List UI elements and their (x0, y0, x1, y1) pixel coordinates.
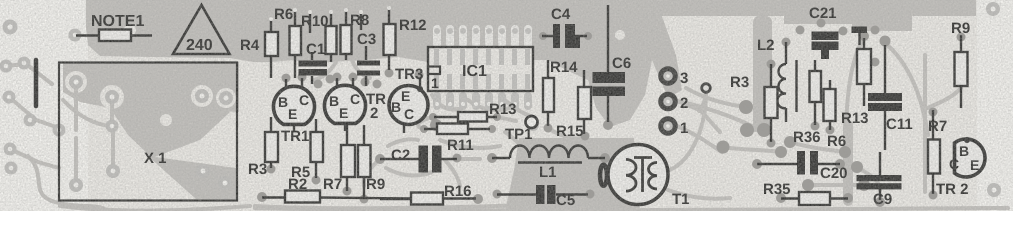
pad T1 area big vias (739, 100, 753, 114)
node 1 ring (661, 119, 689, 137)
wire trace misc middle (418, 117, 433, 129)
copper pour: vertical bundle left of L2 (753, 16, 772, 131)
wire trace central clutter (677, 101, 752, 126)
copper pour: bottom-middle block under L1/C5 (505, 138, 640, 211)
wire trace inside X1 (74, 86, 78, 130)
op-amp IC1 (428, 47, 533, 91)
resistor R3 (left) (248, 117, 278, 178)
resistor R10 (301, 10, 337, 62)
resistor R36 (793, 60, 821, 146)
copper pour: X1 lower-right diagonal (148, 156, 236, 199)
copper pour: C21 band thickening (784, 16, 870, 24)
wire trace left cluster (6, 64, 52, 84)
transistor TR1 (273, 78, 314, 145)
resistor R13 (right) (841, 38, 871, 127)
resistor NOTE1 (76, 13, 152, 41)
T mark near C21 (852, 27, 868, 65)
node 3 ring (661, 69, 689, 87)
resistor R9 (left) (358, 125, 385, 198)
resistor R3 (right) (730, 64, 778, 142)
copper pour: top band (63, 0, 976, 211)
triangle 240 marker (173, 5, 230, 54)
transistor TR2 (middle) (325, 78, 387, 131)
transformer T1 (600, 145, 690, 209)
transistor TR2 (right) (936, 137, 985, 198)
capacitor C9 (857, 152, 902, 208)
capacitor C2 (380, 146, 457, 173)
test point TP1 (505, 116, 538, 143)
resistor R7 (right) (928, 110, 947, 194)
IC1 inner stripes (434, 49, 530, 89)
resistor R6 (right) (824, 80, 847, 150)
pad lower transistor region (257, 192, 267, 202)
capacitor C11 (868, 45, 913, 150)
resistor R16 (380, 183, 472, 205)
connector X1 (59, 63, 237, 201)
capacitor C21 (809, 5, 839, 59)
resistor R15 (556, 70, 591, 140)
pad L1 C5 (487, 153, 497, 163)
copper pour: right of IC1 (C4/C6 area) (534, 0, 682, 127)
resistor R12 (384, 6, 427, 70)
capacitor C20 (757, 151, 848, 182)
wire trace T1 to rings (664, 92, 706, 172)
resistor R5 (291, 119, 323, 181)
pad C6 R14 R15 C4 (603, 120, 613, 130)
inductor L1 (492, 146, 605, 182)
transistor TR3 (389, 66, 428, 133)
inductor L2 (757, 37, 797, 122)
pad row above transistors (282, 74, 291, 83)
capacitor C5 (497, 185, 588, 209)
copper pour: strip behind C9 (843, 120, 853, 206)
capacitor C4 (542, 6, 587, 48)
wire trace along bottom (255, 205, 528, 208)
resistor R13 (left) (434, 101, 517, 122)
resistor R2 + wire (262, 176, 476, 203)
wire trace clutter below IC1 (314, 60, 531, 186)
capacitor C6 (593, 5, 632, 122)
resistor R35 (763, 181, 848, 205)
wire trace S-curve below X1 (28, 156, 105, 209)
wire left bar (34, 60, 39, 106)
wire via leads in cluster (308, 10, 363, 33)
small ring node (702, 84, 711, 93)
copper pour: right band thickening (852, 16, 912, 31)
copper pour: X1 inner triangle (106, 100, 230, 158)
resistor R8 (341, 8, 370, 60)
node 2 ring (661, 94, 689, 112)
resistor R4 (240, 17, 278, 78)
copper pour: upper-left block (86, 0, 253, 62)
resistor R6 (274, 6, 301, 78)
resistor R11 (424, 124, 490, 155)
resistor R14 (543, 59, 578, 126)
copper pour: above IC1 (428, 0, 534, 47)
copper pour: resistor-cluster block (253, 0, 428, 65)
wire trace right verticals (923, 55, 927, 192)
pad right region (859, 31, 869, 41)
capacitor C1 (299, 41, 328, 84)
clearance holes in copper (65, 24, 625, 127)
copper pour: inside X1 top (63, 62, 239, 112)
capacitor C3 (357, 31, 380, 86)
resistor R7 (left) (323, 125, 355, 193)
resistor R9 (right) (951, 20, 970, 108)
